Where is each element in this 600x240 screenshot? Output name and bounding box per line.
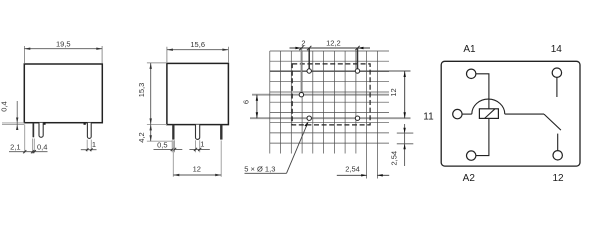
extension to hole col A: [308, 48, 310, 68]
relay body side: [167, 63, 229, 124]
svg-text:A1: A1: [463, 44, 476, 55]
holes 5x: [299, 69, 360, 121]
svg-text:0,5: 0,5: [157, 141, 167, 150]
pin A1: [467, 69, 476, 78]
wire 11 to hop: [462, 113, 472, 115]
svg-text:11: 11: [423, 111, 434, 122]
pin shoulder notches: [43, 123, 45, 125]
dim 15,6: [167, 47, 229, 63]
svg-text:2,54: 2,54: [389, 151, 398, 166]
svg-text:12,2: 12,2: [326, 38, 341, 47]
wire A1 to coil: [476, 74, 489, 109]
dim 15,3: [147, 62, 167, 64]
svg-text:0,4: 0,4: [37, 142, 47, 151]
schematic box: [441, 61, 580, 166]
svg-text:12: 12: [389, 88, 398, 96]
dim 1 right pin: [87, 140, 91, 152]
dashed relay outline: [292, 64, 370, 125]
dim 0,5: [172, 140, 174, 152]
dim 1 middle pin: [196, 140, 200, 152]
pin 14: [552, 68, 561, 77]
dim 12 right: [404, 71, 406, 118]
dim 2,54 right vertical: [397, 124, 414, 166]
gray extension row bottom holes: [250, 117, 411, 119]
coil K1: [479, 109, 498, 119]
dims 2,1 and 0,4 bottom: [25, 125, 35, 154]
pin right: [87, 123, 91, 139]
pin left dark: [172, 125, 174, 140]
wire A2 to coil: [476, 118, 489, 155]
svg-text:15,6: 15,6: [190, 40, 205, 49]
stub pin 12: [557, 134, 559, 151]
dim 4,2: [147, 140, 172, 142]
dim 19,5: [25, 46, 103, 63]
wire hop to contact: [505, 113, 544, 115]
gray extension row middle hole: [252, 94, 389, 96]
raster grid: [270, 51, 389, 179]
pin 12: [553, 151, 562, 160]
svg-text:0,4: 0,4: [0, 101, 9, 111]
svg-text:2,1: 2,1: [10, 142, 20, 151]
pin middle outlined: [196, 125, 200, 140]
pin 11: [453, 109, 462, 118]
svg-text:A2: A2: [463, 173, 476, 184]
svg-text:12: 12: [552, 173, 564, 184]
svg-text:1: 1: [200, 140, 204, 149]
svg-text:15,3: 15,3: [137, 83, 146, 98]
pin right dark: [220, 125, 222, 140]
extension to middle hole col: [300, 48, 302, 92]
svg-text:12: 12: [193, 165, 201, 174]
svg-text:6: 6: [242, 100, 251, 104]
svg-text:19,5: 19,5: [56, 39, 71, 48]
gray extension row top holes: [270, 70, 411, 72]
dim 0,4 left side: [2, 122, 24, 124]
stub pin 14: [556, 78, 558, 98]
wire hop arc over coil: [472, 99, 505, 114]
pin wide left: [39, 123, 43, 138]
svg-text:2,54: 2,54: [345, 164, 360, 173]
pin A2: [467, 151, 476, 160]
svg-text:4,2: 4,2: [137, 132, 146, 142]
dim 2 and 12,2 top: [290, 47, 371, 49]
dim 12: [173, 141, 221, 177]
pin thin (coil): [33, 123, 35, 138]
extension to hole col B: [357, 48, 359, 68]
relay body front: [24, 64, 102, 123]
contact arm: [544, 114, 561, 130]
svg-text:14: 14: [551, 44, 563, 55]
svg-text:1: 1: [92, 140, 96, 149]
dim 2,54 bottom: [337, 174, 367, 176]
dim 6 left: [256, 95, 258, 119]
svg-text:5 × Ø 1,3: 5 × Ø 1,3: [244, 164, 275, 173]
svg-text:2: 2: [301, 38, 305, 47]
